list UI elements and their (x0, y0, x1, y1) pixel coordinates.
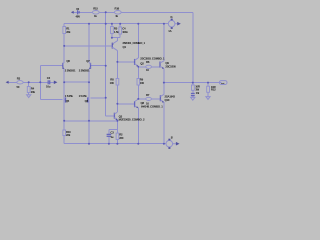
svg-text:10u: 10u (46, 85, 51, 89)
svg-text:1u: 1u (110, 135, 113, 139)
svg-text:MJE15035_COMBO_2: MJE15035_COMBO_2 (119, 117, 145, 121)
svg-text:100: 100 (140, 81, 145, 85)
svg-text:R12: R12 (211, 88, 216, 92)
svg-text:2SC5200: 2SC5200 (165, 65, 176, 69)
svg-text:out: out (221, 82, 225, 85)
svg-text:2SC3503_COMBO_1: 2SC3503_COMBO_1 (140, 56, 165, 60)
svg-text:22k: 22k (66, 30, 71, 34)
svg-text:2 2N5551: 2 2N5551 (65, 68, 76, 72)
svg-text:100n: 100n (122, 30, 128, 34)
svg-text:R15: R15 (93, 7, 98, 11)
svg-text:48V: 48V (76, 15, 81, 19)
svg-text:/N4148_COMBO_1: /N4148_COMBO_1 (141, 104, 163, 108)
svg-text:1 5.05k: 1 5.05k (65, 94, 74, 98)
svg-text:220: 220 (119, 136, 124, 140)
svg-text:1.5k: 1.5k (114, 30, 119, 34)
svg-text:22k: 22k (66, 133, 71, 137)
svg-text:100: 100 (110, 81, 115, 85)
svg-text:20k: 20k (31, 90, 36, 94)
svg-text:2N5401_COMBO_1: 2N5401_COMBO_1 (123, 41, 146, 45)
svg-text:Q10: Q10 (165, 98, 170, 102)
svg-text:2 2N5551: 2 2N5551 (79, 68, 90, 72)
svg-text:R16: R16 (115, 7, 120, 11)
svg-text:1 5.05k: 1 5.05k (79, 94, 88, 98)
svg-text:1A: 1A (168, 29, 171, 33)
